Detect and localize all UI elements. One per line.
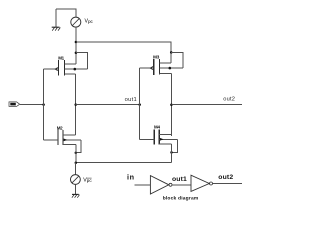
- wire: input gate column (M1 gate to M2 gate): [43, 69, 45, 140]
- svg-text:out2: out2: [223, 97, 235, 103]
- node: M4 bulk-source junction: [170, 151, 173, 154]
- svg-text:out1: out1: [172, 176, 187, 183]
- node: bottom rail junction: [75, 161, 78, 164]
- voltage source Vpc-bar (bottom): [71, 175, 81, 185]
- svg-text:in: in: [127, 172, 135, 181]
- voltage source Vpc (top): [71, 17, 81, 27]
- wire: Vpc-bar to ground: [74, 184, 76, 194]
- wire: stage-2 gate column (M3 gate to M4 gate): [139, 68, 141, 139]
- svg-text:Vpc: Vpc: [85, 19, 94, 25]
- wire: out1 to stage-2 gate column: [76, 104, 140, 106]
- svg-text:out1: out1: [125, 97, 137, 103]
- node: M3 bulk loop junction: [170, 51, 173, 54]
- wire: ground to Vpc source top: [56, 9, 76, 17]
- node: stage-2 gate junction: [138, 103, 141, 106]
- node: M1 bulk loop junction: [75, 51, 78, 54]
- node: out2 junction: [170, 103, 173, 106]
- wire: top rail to M3 column: [76, 42, 171, 63]
- wire: rail down to Vpc-bar source: [75, 163, 77, 175]
- inverter 1: [150, 176, 168, 194]
- wire: inverter2 to right edge: [213, 183, 242, 185]
- wire: M4 bulk loop: [172, 139, 178, 152]
- transistor M4: [140, 125, 178, 145]
- transistor M1: [44, 55, 88, 75]
- wire: M2 bulk loop: [76, 140, 81, 153]
- transistor M2: [44, 125, 82, 145]
- svg-text:M4: M4: [154, 125, 160, 130]
- node: top rail junction: [75, 41, 78, 44]
- port in: [9, 102, 20, 107]
- wire: in to inverter 1: [135, 184, 151, 186]
- transistor M3: [140, 54, 183, 75]
- wire: M2 source down to rail: [75, 145, 77, 163]
- node: out1 junction: [74, 103, 77, 106]
- wire: bottom rail: [76, 162, 172, 164]
- svg-text:M1: M1: [58, 55, 64, 60]
- node: in junction: [42, 103, 45, 106]
- bubble of inverter 2: [210, 182, 213, 185]
- svg-text:Vpc: Vpc: [83, 178, 92, 184]
- wire: M3 bulk loop: [171, 52, 183, 68]
- wire: Vpc source bottom to M1 drain (supply vertical): [75, 27, 77, 64]
- wire: out2 vertical (M3 drain to M4 drain): [170, 73, 172, 136]
- inverter 2: [191, 175, 209, 191]
- svg-text:block diagram: block diagram: [163, 196, 199, 202]
- node: M2 bulk-source junction: [75, 151, 78, 154]
- wire: in port to gate column: [20, 104, 44, 106]
- wire: M1 bulk loop: [76, 53, 88, 69]
- wire: out1 vertical (M1 drain to M2 drain): [75, 74, 77, 135]
- wire: M4 source down to rail corner: [171, 144, 173, 163]
- wire: inverter1 to inverter2: [172, 184, 191, 186]
- bubble of inverter 1: [169, 183, 172, 186]
- ground (top-left): [52, 9, 61, 31]
- wire: out2 to right edge: [171, 104, 242, 106]
- svg-text:out2: out2: [218, 174, 233, 181]
- svg-text:M3: M3: [153, 54, 160, 59]
- ground (bottom): [72, 194, 80, 197]
